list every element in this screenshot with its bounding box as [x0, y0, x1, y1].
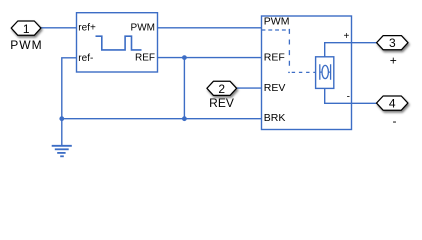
svg-text:PWM: PWM	[264, 15, 290, 27]
svg-text:2: 2	[218, 82, 225, 96]
svg-text:1: 1	[23, 22, 30, 36]
svg-text:BRK: BRK	[264, 112, 286, 124]
svg-text:3: 3	[389, 36, 396, 50]
svg-text:+: +	[390, 54, 397, 68]
svg-text:PWM: PWM	[131, 23, 155, 34]
svg-text:REV: REV	[264, 82, 286, 94]
svg-text:ref-: ref-	[78, 53, 93, 64]
svg-text:REV: REV	[209, 96, 234, 110]
svg-text:4: 4	[389, 96, 396, 110]
svg-text:-: -	[347, 92, 350, 103]
svg-text:REF: REF	[135, 53, 155, 64]
svg-text:PWM: PWM	[10, 38, 42, 52]
svg-text:REF: REF	[264, 52, 285, 64]
svg-text:+: +	[343, 31, 349, 42]
svg-text:ref+: ref+	[78, 22, 96, 33]
svg-text:-: -	[393, 114, 397, 128]
